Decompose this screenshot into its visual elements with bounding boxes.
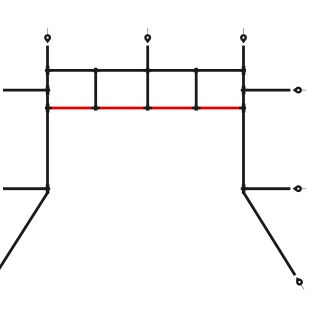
junction left upper branch bbox=[43, 86, 50, 95]
terminal pin T6 bottom right bbox=[293, 275, 304, 289]
junction left lower branch bbox=[43, 184, 50, 193]
terminal pin T3 top right bbox=[240, 28, 247, 44]
junction bus right end bbox=[239, 66, 246, 75]
wire vertical V2 bbox=[94, 69, 97, 109]
wire left diagonal bbox=[0, 193, 48, 269]
wire right branch upper bbox=[244, 89, 291, 92]
junction red net left end bbox=[45, 104, 52, 113]
junction bus V3 bbox=[143, 68, 152, 73]
wire vertical V5 right column bbox=[242, 46, 245, 194]
wire vertical V1 left column bbox=[46, 46, 49, 194]
junction red net V2 bbox=[91, 105, 100, 110]
junction red net V4 bbox=[192, 105, 201, 110]
terminal pin T2 top middle bbox=[144, 28, 151, 44]
terminal pin T5 right lower bbox=[293, 185, 307, 192]
wire left branch upper bbox=[3, 89, 48, 92]
wire right diagonal bbox=[244, 193, 295, 276]
wire top bus bbox=[48, 69, 244, 72]
junction right upper branch bbox=[241, 86, 248, 95]
junction bus V2 bbox=[91, 68, 100, 73]
wire vertical V4 bbox=[195, 69, 198, 109]
junction bus V4 bbox=[192, 68, 201, 73]
junction right lower branch bbox=[241, 184, 248, 193]
terminal pin T4 right upper bbox=[293, 87, 307, 94]
wire red feeder net bbox=[48, 107, 244, 110]
wire right branch lower bbox=[244, 187, 291, 190]
terminal pin T1 top left bbox=[44, 28, 51, 44]
junction red net right end bbox=[239, 104, 246, 113]
wire left branch lower bbox=[3, 187, 48, 190]
junction red net V3 bbox=[143, 105, 152, 110]
junction bus left end bbox=[45, 66, 52, 75]
wire vertical V3 middle column bbox=[146, 46, 149, 110]
